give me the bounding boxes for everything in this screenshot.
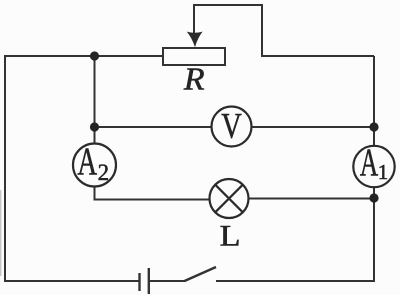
svg-text:R: R	[183, 63, 205, 98]
svg-text:A: A	[77, 141, 97, 184]
svg-text:2: 2	[98, 160, 110, 185]
svg-text:L: L	[220, 218, 241, 252]
svg-text:V: V	[221, 106, 242, 146]
svg-text:A: A	[360, 142, 378, 185]
svg-text:1: 1	[378, 160, 389, 184]
